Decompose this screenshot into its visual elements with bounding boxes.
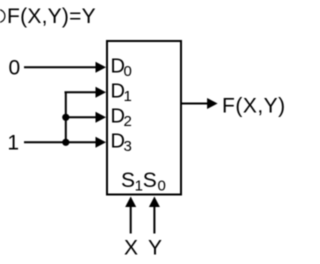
wire vertical bus from node on D3 up to D1 [65,92,67,142]
wire 0 to D0 [24,62,106,73]
circled label (partially cut off at left edge) [0,10,5,23]
svg-text:X: X [124,237,138,260]
svg-text:1: 1 [7,132,19,155]
svg-text:F(X,Y)=Y: F(X,Y)=Y [7,5,96,28]
wire 1 to D3 [24,137,106,148]
svg-text:0: 0 [8,56,20,79]
mux box U1 [107,41,181,195]
svg-text:Y: Y [148,237,162,260]
junction dot on D2 wire [62,114,69,121]
wire output F [180,98,218,109]
svg-text:F(X,Y): F(X,Y) [222,95,286,118]
wire select X to S1 [125,197,136,234]
junction dot on D3 wire [62,139,69,146]
wire to D2 [65,112,107,123]
wire to D1 [65,87,107,98]
wire select Y to S0 [149,197,160,234]
